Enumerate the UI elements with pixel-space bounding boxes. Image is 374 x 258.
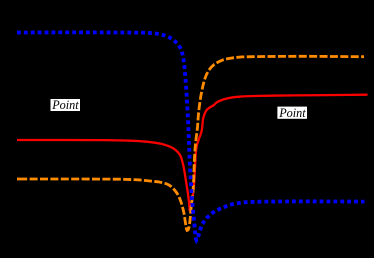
label Point left xyxy=(51,98,81,112)
svg-text:Point: Point xyxy=(51,98,79,112)
curve red solid (step up with dip) xyxy=(17,95,368,212)
svg-text:Point: Point xyxy=(278,106,306,120)
curve orange dashed (step up with dip) xyxy=(17,56,364,230)
curve blue dotted (step down with dip) xyxy=(17,32,365,240)
orange first dash stub xyxy=(17,178,19,181)
label Point right xyxy=(277,106,307,120)
